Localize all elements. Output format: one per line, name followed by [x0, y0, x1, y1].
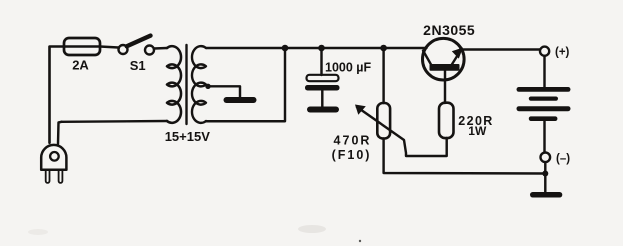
svg-text:(–): (–) [556, 153, 570, 165]
svg-text:2A: 2A [72, 57, 89, 72]
svg-text:1000 µF: 1000 µF [325, 61, 371, 75]
svg-text:1W: 1W [468, 124, 487, 138]
svg-text:S1: S1 [130, 58, 146, 73]
svg-text:(F10): (F10) [332, 148, 372, 162]
svg-text:2N3055: 2N3055 [423, 22, 475, 38]
svg-text:(+): (+) [555, 46, 570, 58]
svg-text:470R: 470R [334, 134, 372, 148]
svg-text:15+15V: 15+15V [165, 129, 211, 144]
